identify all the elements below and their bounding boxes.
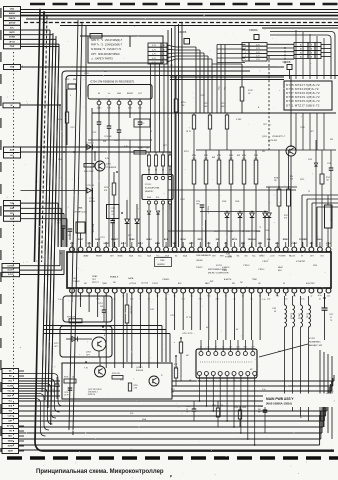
svg-text:1M: 1M [104, 71, 107, 73]
svg-text:D712: D712 [54, 343, 59, 345]
svg-text:5.1B: 5.1B [198, 381, 201, 383]
svg-text:ELECTRIC: ELECTRIC [306, 283, 316, 285]
svg-text:C714: C714 [98, 303, 103, 305]
svg-text:R717: R717 [221, 103, 226, 105]
svg-text:OMOFF: OMOFF [196, 260, 204, 262]
svg-text:7.4v: 7.4v [58, 299, 62, 301]
svg-text:TW: TW [9, 431, 12, 433]
svg-text:D711: D711 [300, 179, 304, 181]
svg-text:SDA1: SDA1 [146, 238, 152, 241]
svg-text:MUT P: MUT P [7, 396, 13, 398]
svg-text:SCL2: SCL2 [121, 243, 127, 245]
svg-text:R716 100K: R716 100K [84, 171, 94, 173]
svg-text:R03BENNC: R03BENNC [309, 342, 321, 344]
svg-text:C707: C707 [70, 127, 75, 129]
svg-text:DATA: DATA [128, 277, 134, 280]
svg-text:R764: R764 [234, 407, 238, 409]
svg-text:SDA: SDA [10, 217, 15, 220]
svg-text:TRIM: TRIM [102, 283, 107, 285]
svg-text:0.5v: 0.5v [318, 295, 322, 297]
svg-text:V-HECK: V-HECK [222, 267, 230, 269]
svg-text:SRND: SRND [103, 243, 109, 245]
svg-text:R755: R755 [65, 79, 69, 81]
svg-text:BW: BW [193, 158, 196, 160]
svg-text:REY1: REY1 [198, 239, 204, 241]
svg-text:UP CH: UP CH [9, 41, 15, 43]
svg-text:IC704 17M-R05BEAB 5V REG(RESET: IC704 17M-R05BEAB 5V REG(RESET) [90, 81, 134, 84]
svg-text:AB 2: AB 2 [8, 435, 12, 438]
svg-text:CLSNA: CLSNA [7, 385, 14, 388]
svg-text:D715 H3: D715 H3 [86, 185, 95, 187]
svg-text:MUTE SW: MUTE SW [268, 140, 277, 142]
svg-text:C705: C705 [92, 132, 96, 134]
svg-text:CM00B: CM00B [283, 61, 291, 64]
svg-text:SUB: SUB [241, 243, 246, 245]
svg-text:VSS: VSS [70, 243, 75, 245]
svg-text:MUTE: MUTE [8, 446, 14, 448]
svg-text:POWER: POWER [225, 257, 233, 259]
svg-text:W: W [11, 105, 13, 107]
svg-text:OTHER: OTHER [162, 279, 169, 281]
svg-text:W: W [283, 283, 285, 285]
svg-text:VOL A: VOL A [8, 390, 14, 393]
svg-text:PWR: PWR [10, 46, 15, 48]
svg-text:CTRL1: CTRL1 [262, 261, 269, 263]
svg-text:C728: C728 [300, 127, 305, 129]
svg-text:C709 1M: C709 1M [104, 136, 112, 138]
svg-text:C718 .12 TF: C718 .12 TF [182, 333, 193, 335]
svg-text:72: 72 [259, 227, 261, 229]
svg-text:-CON: -CON [270, 255, 275, 257]
svg-text:0.2B: 0.2B [232, 381, 235, 383]
svg-text:1: 1 [40, 67, 41, 69]
svg-text:Принципиальная схема. Микрокон: Принципиальная схема. Микроконтроллер [36, 469, 164, 475]
svg-text:5.9v: 5.9v [58, 159, 62, 161]
svg-text:C724: C724 [180, 199, 185, 201]
svg-text:A2: A2 [300, 56, 302, 59]
svg-text:SL 4SLT: SL 4SLT [290, 313, 292, 319]
svg-text:KEY0: KEY0 [189, 243, 195, 245]
svg-text:SRND: SRND [117, 255, 123, 257]
svg-text:R743: R743 [229, 155, 233, 157]
svg-text:R763 47K: R763 47K [112, 373, 121, 375]
svg-text:9.1B: 9.1B [226, 381, 229, 383]
svg-text:SDA2: SDA2 [129, 238, 135, 241]
svg-text:AV CNT: AV CNT [7, 425, 14, 428]
svg-text:GND: GND [10, 9, 15, 11]
svg-text:7.2v: 7.2v [301, 298, 304, 300]
svg-text:Y701 OPT: Y701 OPT [207, 206, 209, 214]
svg-text:0v: 0v [310, 296, 312, 298]
svg-text:NCL: NCL [252, 255, 256, 257]
svg-text:SADR: SADR [8, 450, 14, 453]
svg-text:CTRL2: CTRL2 [258, 269, 265, 271]
svg-text:MEMORY: MEMORY [145, 191, 154, 193]
svg-text:5W: 5W [274, 180, 277, 182]
svg-text:TRIM: TRIM [252, 279, 257, 281]
svg-text:IC703: IC703 [145, 184, 151, 186]
svg-text:R763: R763 [212, 405, 216, 407]
svg-text:POWER: POWER [299, 239, 307, 241]
svg-text:ABJ/AFC SW: ABJ/AFC SW [309, 344, 323, 347]
svg-text:D70B: D70B [228, 231, 233, 233]
svg-text:C758: C758 [186, 406, 190, 408]
svg-text:2W: 2W [146, 148, 149, 150]
svg-text:C726: C726 [327, 163, 331, 165]
svg-text:SCL: SCL [156, 197, 160, 199]
svg-text:CONT: CONT [291, 243, 297, 245]
svg-text:BW: BW [230, 158, 233, 160]
svg-text:CST4MF-50 (U): CST4MF-50 (U) [73, 212, 87, 214]
svg-text:REMO: REMO [283, 239, 289, 241]
svg-text:SI DIODE :*3 : 1SS133 T-72: SI DIODE :*3 : 1SS133 T-72 [91, 48, 122, 51]
svg-text:BW: BW [218, 158, 221, 160]
svg-text:SCL: SCL [130, 413, 134, 415]
svg-text:SL 9BL: SL 9BL [306, 313, 308, 318]
svg-text:(NA2-10806A-10210): (NA2-10806A-10210) [266, 402, 292, 406]
svg-text:D706: D706 [308, 159, 312, 161]
svg-text:5.9v: 5.9v [262, 389, 266, 391]
svg-text:OPT : NON-MOUNTOPEN: OPT : NON-MOUNTOPEN [91, 53, 120, 56]
svg-text:D709: D709 [256, 231, 261, 233]
svg-text:5v: 5v [319, 298, 321, 300]
svg-text:R718: R718 [204, 103, 209, 105]
svg-text:2.3v: 2.3v [327, 296, 330, 298]
svg-text:AWAY: AWAY [83, 254, 89, 257]
svg-text:9: 9 [70, 95, 71, 97]
svg-text:C712: C712 [329, 314, 333, 316]
svg-text:L701 CILPCM-68LL: L701 CILPCM-68LL [330, 207, 332, 222]
svg-text:MW: MW [73, 79, 76, 81]
svg-text:A-MUTE: A-MUTE [224, 278, 232, 281]
svg-text:12: 12 [150, 131, 152, 133]
svg-text:C713: C713 [100, 237, 105, 239]
svg-text:98: 98 [274, 311, 276, 313]
svg-text:GND: GND [10, 67, 15, 69]
svg-text:KEY2: KEY2 [232, 239, 238, 241]
svg-text:R713 3.7K: R713 3.7K [92, 224, 94, 233]
svg-text:⚠ : SAFETY PARTS: ⚠ : SAFETY PARTS [91, 57, 113, 60]
svg-text:2.2B: 2.2B [239, 381, 242, 383]
svg-text:FALL: FALL [317, 238, 323, 241]
svg-text:BW: BW [237, 155, 240, 157]
svg-text:SVC: SVC [10, 27, 15, 29]
svg-text:SD: SD [113, 282, 116, 284]
svg-text:3.5VSYNC: 3.5VSYNC [296, 261, 306, 263]
svg-text:FALLIN: FALLIN [289, 254, 296, 257]
svg-text:MAIN PWB ASS'Y: MAIN PWB ASS'Y [266, 397, 294, 401]
svg-text:CM006: CM006 [178, 30, 187, 34]
svg-text:BW: BW [212, 157, 215, 159]
svg-text:R742: R742 [217, 155, 221, 157]
svg-text:12 TF: 12 TF [186, 317, 192, 319]
svg-text:RXD: RXD [10, 208, 15, 210]
svg-text:C715: C715 [140, 123, 145, 125]
svg-text:XIN: XIN [87, 243, 91, 245]
svg-text:12 TF: 12 TF [57, 223, 61, 225]
svg-text:IN1: IN1 [237, 255, 240, 257]
svg-text:OSC1: OSC1 [95, 239, 101, 241]
svg-text:BL-M0DAP-ETAB: BL-M0DAP-ETAB [145, 187, 160, 190]
svg-text:UTESS/STTL-T: UTESS/STTL-T [272, 136, 286, 138]
svg-text:AM SW: AM SW [9, 22, 16, 25]
svg-text:R740: R740 [192, 155, 196, 157]
svg-text:S-OUT: S-OUT [8, 274, 14, 276]
svg-text:TXD: TXD [10, 203, 14, 205]
svg-text:PRTCT: PRTCT [92, 282, 100, 284]
svg-text:CM00A: CM00A [249, 28, 258, 32]
svg-text:BW: BW [243, 158, 246, 160]
svg-text:4.6B: 4.6B [212, 381, 215, 383]
svg-text:AUX: AUX [10, 148, 15, 151]
svg-text:LIO: LIO [10, 155, 14, 157]
svg-text:RESET: RESET [127, 93, 134, 95]
svg-text:SCLK: SCLK [180, 239, 186, 241]
svg-text:SCL: SCL [138, 255, 142, 257]
svg-text:R734: R734 [64, 377, 68, 379]
svg-text:IN-OUT: IN-OUT [8, 270, 15, 272]
svg-text:R744: R744 [242, 155, 246, 157]
svg-text:D714 T2: D714 T2 [86, 143, 95, 145]
svg-text:IN3: IN3 [245, 255, 248, 257]
svg-text:4.8V: 4.8V [246, 381, 249, 383]
svg-text:R709: R709 [326, 177, 330, 179]
svg-text:LINE BALANCE: LINE BALANCE [196, 254, 212, 257]
svg-text:CTRL2: CTRL2 [152, 283, 158, 285]
svg-text:T2 BUFFER: T2 BUFFER [106, 167, 117, 169]
svg-text:CLOCK: CLOCK [141, 283, 149, 285]
svg-text:BLE: BLE [258, 243, 263, 245]
svg-text:3W: 3W [232, 283, 235, 285]
svg-text:R741: R741 [204, 155, 208, 157]
svg-text:L703: L703 [272, 308, 276, 310]
svg-text:BW: BW [255, 158, 258, 160]
svg-text:PW: PW [103, 141, 106, 143]
svg-text:150: 150 [100, 306, 103, 308]
svg-text:W: W [301, 255, 303, 257]
svg-text:MUTE: MUTE [9, 32, 15, 34]
svg-text:BW: BW [205, 158, 208, 160]
svg-text:R714: R714 [184, 151, 189, 153]
svg-text:SWITCH: SWITCH [88, 394, 96, 396]
svg-text:72: 72 [242, 231, 244, 233]
svg-text:CLS V: CLS V [8, 416, 14, 418]
svg-text:C719: C719 [170, 315, 175, 317]
svg-text:XOUT: XOUT [78, 239, 84, 241]
svg-text:BLK: BLK [278, 270, 282, 272]
svg-text:CTRL3: CTRL3 [243, 265, 250, 267]
svg-text:RESET: RESET [96, 255, 103, 257]
svg-text:PNP Tr : *2 : 2SA933AS(R)-T: PNP Tr : *2 : 2SA933AS(R)-T [91, 44, 123, 47]
svg-text:72: 72 [308, 191, 310, 193]
svg-text:1.4V: 1.4V [219, 381, 222, 383]
svg-text:SDAB: SDAB [8, 440, 14, 443]
svg-text:GND: GND [117, 93, 122, 95]
svg-text:17: 17 [326, 245, 328, 247]
svg-text:TRM: TRM [160, 260, 165, 262]
svg-text:VDD: VDD [313, 265, 318, 267]
svg-text:PMUTE: PMUTE [9, 18, 16, 20]
svg-text:C712: C712 [111, 208, 115, 210]
svg-text:RESET: RESET [111, 239, 118, 241]
svg-text:POWER: POWER [279, 255, 286, 257]
svg-text:GEMINI: GEMINI [157, 264, 165, 266]
svg-text:XRAY: XRAY [92, 275, 98, 278]
svg-text:PW: PW [96, 147, 99, 149]
svg-text:R756 10K: R756 10K [67, 317, 76, 319]
svg-text:DOWN: DOWN [9, 37, 16, 39]
svg-text:D707: D707 [214, 231, 219, 233]
svg-text:BCA: BCA [164, 238, 169, 241]
svg-text:C708: C708 [200, 95, 205, 97]
svg-text:TRIM: TRIM [222, 270, 227, 272]
svg-text:5W: 5W [330, 139, 333, 141]
svg-text:R745: R745 [254, 155, 258, 157]
svg-text:SCL1: SCL1 [138, 243, 144, 245]
svg-text:12: 12 [330, 317, 332, 319]
svg-text:TIMER: TIMER [73, 281, 80, 283]
svg-text:3W: 3W [262, 151, 265, 153]
svg-text:Q704: Q704 [86, 352, 91, 354]
svg-text:S-VOUT: S-VOUT [7, 265, 15, 267]
svg-text:Q706 *1: Q706 *1 [136, 367, 143, 369]
svg-text:OFF: OFF [73, 278, 78, 280]
svg-text:MICRO COMPUTER: MICRO COMPUTER [208, 272, 229, 274]
svg-text:C703: C703 [84, 73, 89, 75]
svg-text:SDA0: SDA0 [155, 242, 161, 245]
svg-text:18 TF: 18 TF [186, 131, 192, 133]
svg-text:AUDIO: AUDIO [9, 12, 16, 15]
svg-text:1: 1 [245, 59, 246, 61]
svg-text:NPN Tr : *1 : 2SC1740S(R)-T: NPN Tr : *1 : 2SC1740S(R)-T [91, 39, 123, 42]
svg-text:TREBLE: TREBLE [248, 239, 257, 241]
svg-text:ENABLE: ENABLE [110, 276, 119, 279]
svg-text:BUFFER: BUFFER [136, 370, 144, 372]
svg-text:OPT: OPT [196, 204, 199, 206]
svg-text:CTRL4: CTRL4 [130, 283, 136, 285]
svg-text:44: 44 [60, 253, 62, 255]
svg-text:TVEXT: TVEXT [196, 267, 203, 269]
svg-text:X701: X701 [78, 208, 84, 210]
svg-text:SCL: SCL [156, 255, 160, 257]
svg-text:2.3v: 2.3v [267, 298, 270, 300]
svg-text:L705 16: L705 16 [298, 313, 300, 319]
svg-text:R735 10B: R735 10B [130, 306, 132, 314]
svg-text:4.7MF: 4.7MF [236, 119, 242, 121]
svg-text:FAST: FAST [278, 266, 284, 269]
svg-text:IC702: IC702 [309, 338, 316, 340]
svg-text:REMO: REMO [259, 255, 265, 257]
